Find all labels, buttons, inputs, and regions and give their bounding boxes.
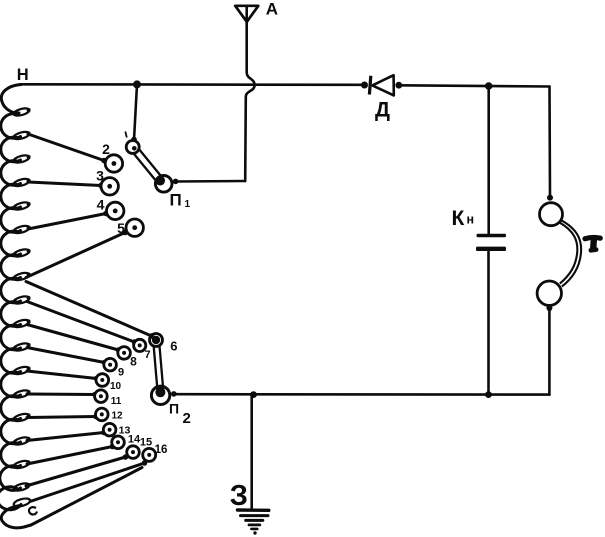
tap wire to contact 11 (27, 393, 95, 397)
contact 11 (95, 390, 108, 403)
contact 3 (101, 178, 118, 195)
coil H turn 13 (1, 372, 21, 397)
coil H turn 18 (0, 487, 21, 510)
diode D cathode bar (369, 76, 370, 95)
contact 4 (107, 202, 124, 219)
contact 9 (104, 358, 117, 371)
antenna A triangle (235, 6, 258, 22)
contact 7 (134, 339, 146, 351)
contact 1 (126, 141, 139, 154)
coil H loop 14 (13, 412, 30, 422)
headphones T top earpiece (540, 203, 563, 226)
svg-text:н: н (467, 213, 475, 227)
contact 10 (96, 374, 109, 387)
coil H turn 14 (1, 396, 21, 421)
contact 12 (96, 408, 109, 421)
coil H loop 17 (13, 482, 30, 492)
svg-text:10: 10 (110, 381, 122, 392)
switch P2 arm (153, 340, 163, 392)
tap wire to contact 15 (26, 457, 126, 486)
tap wire to contact 4 (28, 214, 106, 230)
coil H turn 9 (1, 278, 21, 303)
coil H loop 2 (13, 130, 30, 140)
svg-text:7: 7 (144, 349, 150, 361)
svg-text:9: 9 (118, 367, 124, 379)
coil H turn 7 (1, 231, 21, 256)
wire phones bottom drop (548, 306, 551, 395)
node capacitor bottom junction (485, 391, 492, 398)
coil bottom turn wire to contact 16 (31, 468, 142, 526)
capacitor Kn bottom plate (476, 247, 506, 251)
coil H loop 6 (13, 224, 30, 234)
svg-text:2: 2 (102, 141, 110, 157)
svg-text:Д: Д (375, 99, 390, 122)
coil H turn 5 (1, 184, 21, 209)
switch P1 arm knob (155, 176, 165, 186)
svg-text:3: 3 (96, 168, 104, 184)
switch P2 pivot ring (151, 386, 169, 404)
node contact 1 top (131, 137, 137, 143)
coil H loop 16 (13, 459, 30, 469)
wire capacitor branch lower (487, 252, 490, 395)
coil H turn 8 (1, 255, 21, 280)
contact 15 (127, 446, 140, 459)
tap wire to contact 16 (30, 463, 145, 502)
coil H loop 4 (13, 177, 30, 187)
tap wire to contact 3 (28, 182, 101, 186)
coil H loop 7 (13, 248, 30, 258)
svg-text:16: 16 (155, 444, 168, 456)
wire top bus right of diode (399, 85, 550, 86)
coil H turn 10 (1, 302, 21, 327)
coil H turn 2 (1, 114, 21, 139)
wire capacitor branch upper (487, 86, 490, 234)
tap wire to contact 7 (27, 302, 135, 343)
wire ground drop (250, 395, 253, 510)
label 1 tick (125, 132, 127, 138)
coil H loop 11 (13, 342, 30, 352)
svg-text:4: 4 (97, 197, 105, 213)
contact 2 (105, 155, 122, 172)
coil H loop 5 (13, 201, 30, 211)
coil H loop 12 (13, 365, 30, 375)
svg-text:П: П (169, 401, 179, 417)
headphones T headband arc (559, 222, 577, 283)
coil H bottom turn (1, 506, 31, 528)
tap wire to contact 9 (27, 348, 105, 363)
coil H loop 13 (13, 389, 30, 399)
svg-text:А: А (266, 0, 278, 18)
node ground junction (250, 391, 257, 398)
tap wire to contact 14 (27, 447, 113, 465)
tap wire to contact 6 (26, 282, 152, 337)
ground symbol (238, 510, 269, 535)
coil H bottom loop (13, 497, 31, 508)
wire bottom bus (176, 393, 549, 396)
svg-text:1: 1 (185, 199, 191, 210)
node capacitor top junction (485, 82, 493, 90)
coil H turn 6 (1, 208, 21, 233)
switch P1 pivot ring (155, 176, 172, 193)
svg-text:8: 8 (130, 355, 137, 369)
headphones T bottom earpiece (537, 281, 561, 305)
svg-text:6: 6 (170, 339, 177, 354)
coil H turn 11 (1, 325, 21, 350)
tap wire to contact 10 (27, 371, 97, 379)
node P1 right (173, 179, 179, 185)
coil H loop 9 (13, 295, 30, 305)
coil H loop 15 (13, 436, 30, 446)
svg-text:11: 11 (111, 396, 122, 407)
coil H turn 16 (1, 443, 21, 468)
capacitor Kn top plate (477, 234, 507, 237)
contact 14 (112, 436, 125, 449)
tap wire to contact 8 (27, 325, 119, 351)
coil H loop 1 (13, 107, 30, 117)
wire antenna to switch P1 (176, 180, 245, 183)
svg-text:12: 12 (111, 411, 123, 422)
coil H turn 17 (0, 466, 21, 491)
wire junction to contact 1 (134, 84, 137, 140)
wire top bus left of diode (20, 83, 365, 86)
coil H loop 8 (13, 271, 30, 281)
svg-text:15: 15 (140, 437, 152, 449)
switch P1 arm (130, 145, 163, 183)
svg-text:5: 5 (117, 220, 125, 236)
coil H turn 15 (1, 419, 21, 444)
svg-text:Н: Н (17, 66, 29, 84)
node top bus junction (133, 80, 141, 88)
coil H turn 3 (1, 137, 21, 162)
contact 6 (150, 334, 163, 347)
node P2 right (171, 391, 177, 397)
svg-text:З: З (230, 480, 248, 512)
tap wire to contact 5 (26, 233, 125, 278)
svg-text:П: П (170, 191, 182, 210)
svg-text:К: К (452, 207, 465, 230)
contact 5 (126, 219, 143, 236)
contact 8 (118, 347, 131, 360)
diode D triangle (372, 75, 394, 95)
tap wire to contact 13 (27, 433, 104, 441)
antenna A mast with crossover hop (245, 6, 254, 181)
coil H turn 1 (1, 85, 21, 114)
coil H loop 3 (13, 154, 30, 164)
svg-text:2: 2 (183, 410, 191, 427)
contact 13 (103, 423, 116, 436)
contact 16 (143, 448, 156, 461)
label T (585, 238, 600, 251)
coil H loop 10 (13, 318, 30, 328)
coil H turn 12 (1, 349, 21, 374)
wire right vertical to phones (548, 87, 551, 198)
coil H end curl (29, 507, 37, 514)
switch P2 arm knob (155, 387, 165, 397)
tap wire to contact 2 (28, 134, 104, 161)
tap wire to contact 12 (27, 417, 96, 418)
diode D right node (395, 82, 402, 89)
coil H turn 4 (1, 161, 21, 186)
node phones bottom (546, 305, 552, 311)
node phones top (547, 195, 553, 201)
diode D left node (361, 82, 368, 89)
